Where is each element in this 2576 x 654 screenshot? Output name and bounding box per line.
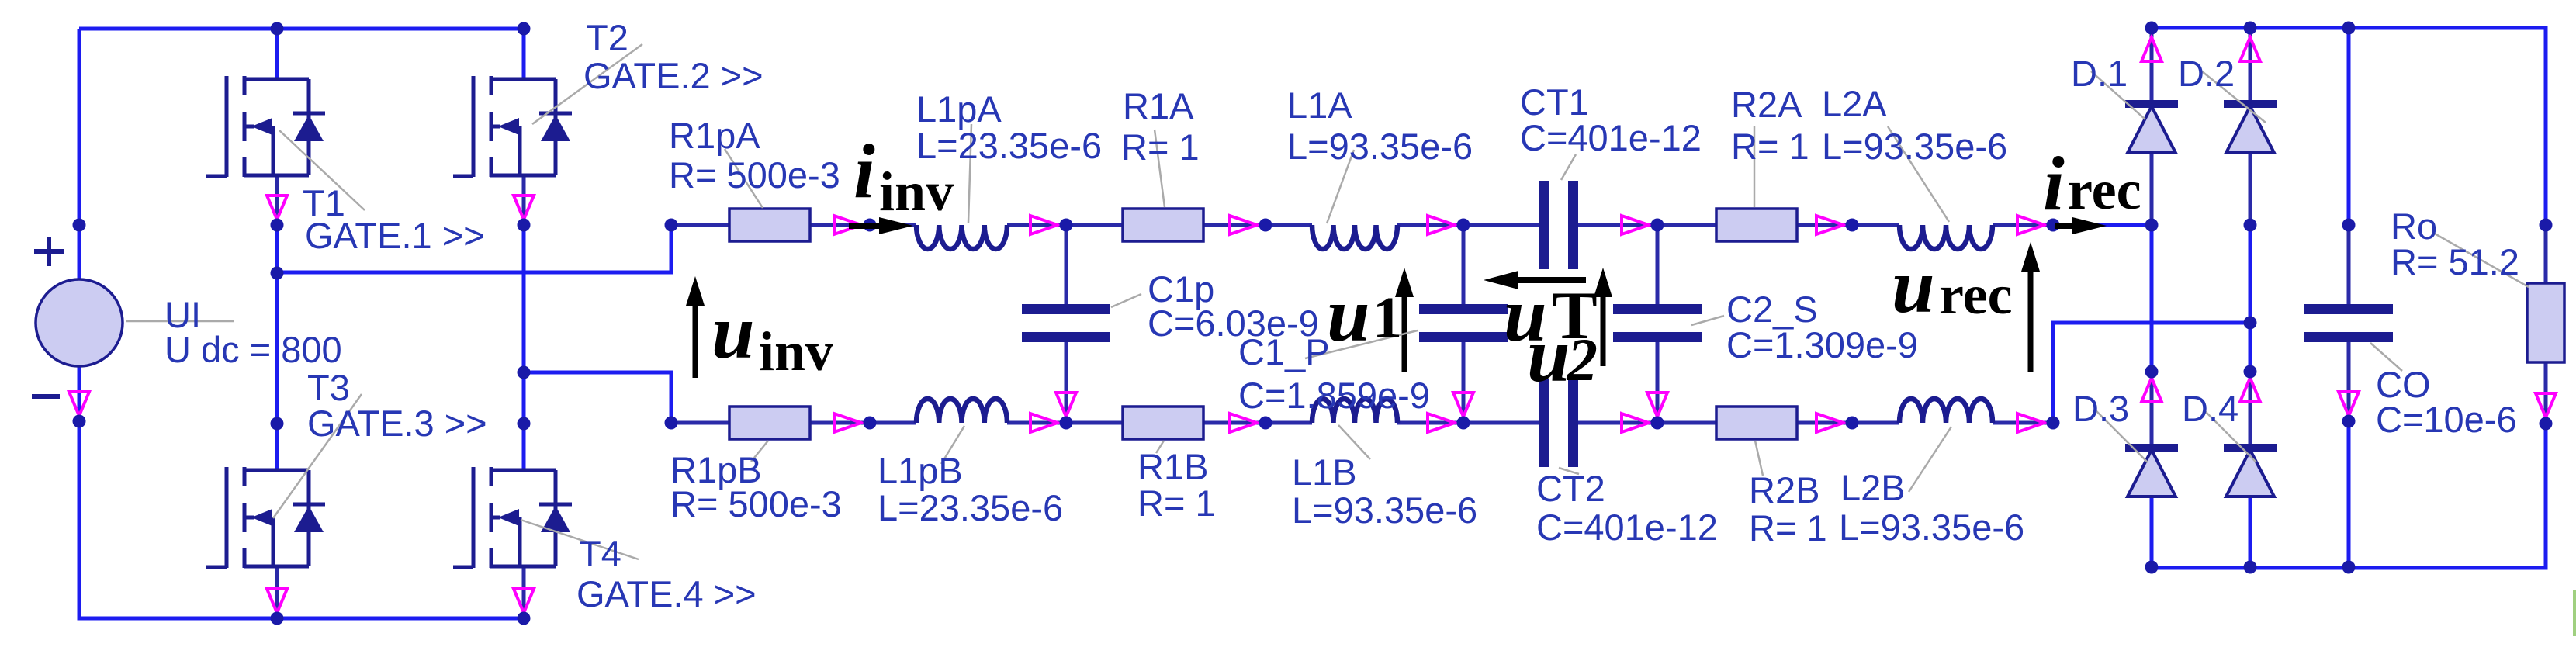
svg-text:inv: inv — [759, 320, 833, 382]
svg-text:R2B: R2B — [1749, 469, 1819, 510]
svg-text:D.1: D.1 — [2071, 53, 2128, 94]
svg-text:R= 500e-3: R= 500e-3 — [670, 483, 842, 524]
svg-text:L=93.35e-6: L=93.35e-6 — [1292, 490, 1477, 531]
svg-text:L2B: L2B — [1840, 467, 1906, 508]
svg-text:u: u — [1892, 243, 1935, 329]
svg-text:C=401e-12: C=401e-12 — [1536, 507, 1718, 548]
svg-text:2: 2 — [1567, 326, 1598, 393]
svg-text:T4: T4 — [579, 533, 621, 574]
svg-text:L=23.35e-6: L=23.35e-6 — [878, 487, 1063, 528]
svg-text:R= 500e-3: R= 500e-3 — [669, 154, 840, 196]
svg-text:C1_P: C1_P — [1238, 331, 1330, 372]
svg-text:u: u — [712, 289, 755, 375]
svg-text:L1pA: L1pA — [916, 88, 1002, 130]
svg-text:C=10e-6: C=10e-6 — [2376, 399, 2517, 440]
svg-text:D.3: D.3 — [2072, 388, 2129, 429]
svg-text:rec: rec — [2068, 159, 2141, 221]
svg-text:R= 1: R= 1 — [1121, 126, 1200, 168]
svg-text:L1pB: L1pB — [878, 450, 963, 491]
svg-text:L1B: L1B — [1292, 452, 1357, 493]
svg-text:D.2: D.2 — [2178, 53, 2235, 94]
svg-text:GATE.2 >>: GATE.2 >> — [583, 55, 763, 96]
svg-text:T2: T2 — [586, 17, 628, 58]
svg-text:D.4: D.4 — [2182, 388, 2238, 429]
svg-text:R= 1: R= 1 — [1137, 483, 1216, 524]
svg-text:u: u — [1527, 312, 1570, 398]
svg-text:CT2: CT2 — [1536, 468, 1605, 509]
svg-text:C=401e-12: C=401e-12 — [1520, 117, 1702, 158]
svg-text:i: i — [2043, 140, 2065, 227]
svg-text:L=93.35e-6: L=93.35e-6 — [1287, 126, 1473, 167]
svg-text:C=1.859e-9: C=1.859e-9 — [1238, 375, 1430, 416]
svg-text:L1A: L1A — [1287, 85, 1352, 126]
svg-text:inv: inv — [879, 161, 954, 223]
svg-text:R= 1: R= 1 — [1731, 126, 1809, 167]
svg-text:GATE.1 >>: GATE.1 >> — [305, 215, 485, 256]
svg-text:i: i — [853, 128, 875, 214]
svg-text:R1pA: R1pA — [669, 115, 760, 156]
svg-text:1: 1 — [1373, 285, 1402, 351]
svg-text:R1A: R1A — [1123, 85, 1194, 126]
svg-text:R= 1: R= 1 — [1749, 507, 1827, 548]
svg-text:L=93.35e-6: L=93.35e-6 — [1839, 507, 2024, 548]
svg-text:L=93.35e-6: L=93.35e-6 — [1822, 126, 2007, 167]
svg-text:u: u — [1327, 272, 1370, 358]
svg-text:C=1.309e-9: C=1.309e-9 — [1726, 324, 1918, 365]
svg-text:R= 51.2: R= 51.2 — [2391, 241, 2519, 282]
svg-text:GATE.4 >>: GATE.4 >> — [576, 573, 757, 614]
svg-text:GATE.3 >>: GATE.3 >> — [307, 403, 487, 444]
svg-text:R2A: R2A — [1731, 84, 1802, 125]
svg-text:rec: rec — [1939, 264, 2013, 326]
svg-text:R1B: R1B — [1137, 446, 1208, 487]
svg-text:L2A: L2A — [1822, 83, 1887, 124]
svg-text:U dc = 800: U dc = 800 — [164, 329, 342, 370]
